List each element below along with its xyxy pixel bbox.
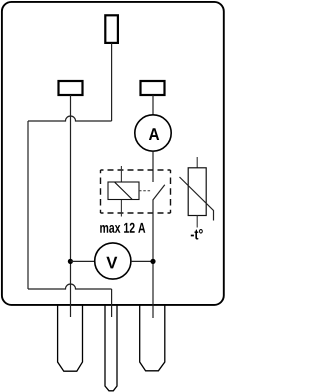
- junction dot right: [150, 259, 155, 264]
- wire junction to voltmeter left: [70, 260, 94, 262]
- wire voltmeter right to junction: [131, 260, 153, 262]
- thermistor body: [188, 168, 206, 216]
- wire horizontal upper with hop: [28, 116, 112, 121]
- wire right box to ammeter: [152, 95, 154, 115]
- bottom blade pin left: [58, 305, 83, 371]
- relay dashed enclosure: [101, 170, 171, 213]
- bottom blade pin middle: [105, 305, 117, 391]
- wire to middle bottom pin: [111, 289, 113, 317]
- relay coil wire stub: [120, 166, 122, 217]
- thermistor diagonal: [180, 177, 214, 221]
- thermistor top lead: [196, 157, 198, 168]
- relay case outline: [2, 2, 224, 305]
- top terminal blade: [105, 15, 118, 43]
- thermistor bottom lead: [196, 216, 198, 228]
- junction dot left: [68, 259, 73, 264]
- relay switch contact: [153, 185, 165, 200]
- right load terminal box: [141, 81, 165, 95]
- voltmeter V: [95, 243, 131, 279]
- wire ammeter to relay switch: [152, 151, 154, 182]
- wire switch to right bottom pin: [152, 200, 154, 318]
- bottom blade pin right: [140, 305, 165, 371]
- actuation dashed link: [139, 190, 151, 192]
- ammeter A: [135, 115, 171, 151]
- left coil terminal box: [59, 81, 83, 95]
- relay coil: [108, 182, 139, 200]
- wire from top terminal down: [111, 43, 113, 121]
- label -t°: [191, 229, 203, 240]
- label max 12 A: [100, 223, 145, 233]
- wire left vertical: [27, 121, 29, 289]
- wire horizontal lower with hop: [28, 284, 112, 289]
- wire left main vertical: [70, 95, 72, 317]
